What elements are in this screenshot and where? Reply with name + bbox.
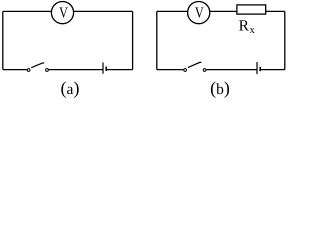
wire: circuit b, bottom-left segment switch to corner bbox=[157, 69, 183, 71]
svg-text:(b): (b) bbox=[210, 78, 230, 98]
battery cell (circuit a) bbox=[103, 62, 106, 73]
wire: circuit b, bottom-right segment corner to battery bbox=[260, 69, 285, 71]
wire: circuit a, top-right segment from voltmeter to corner bbox=[74, 10, 133, 12]
wire: circuit b, bottom segment battery to switch bbox=[206, 69, 257, 71]
battery cell (circuit b) bbox=[257, 62, 260, 74]
wire: circuit a, bottom segment battery to switch bbox=[49, 69, 103, 71]
wire: circuit a, bottom-left segment switch to corner bbox=[3, 69, 27, 71]
voltmeter V (circuit a) bbox=[51, 2, 73, 24]
wire: circuit a, top-left segment to voltmeter bbox=[3, 10, 52, 12]
svg-text:V: V bbox=[195, 4, 204, 21]
wire: circuit b, top-left segment to voltmeter bbox=[157, 10, 188, 12]
svg-text:V: V bbox=[59, 4, 68, 21]
wire: circuit a, right vertical side bbox=[132, 11, 134, 69]
wire: circuit b, left vertical side bbox=[156, 11, 158, 69]
wire: circuit a, bottom-right segment from corner to battery bbox=[106, 69, 132, 71]
wire: circuit a, left vertical side bbox=[2, 11, 4, 69]
wire: circuit b, segment resistor to corner bbox=[266, 10, 285, 12]
svg-text:(a): (a) bbox=[61, 78, 80, 98]
wire: circuit b, right vertical side bbox=[284, 11, 286, 69]
resistor Rx (circuit b) bbox=[237, 5, 266, 14]
switch S (circuit b) bbox=[184, 62, 206, 71]
voltmeter V (circuit b) bbox=[188, 2, 210, 24]
switch S (circuit a) bbox=[27, 63, 48, 71]
wire: circuit b, segment voltmeter to resistor bbox=[210, 10, 237, 12]
